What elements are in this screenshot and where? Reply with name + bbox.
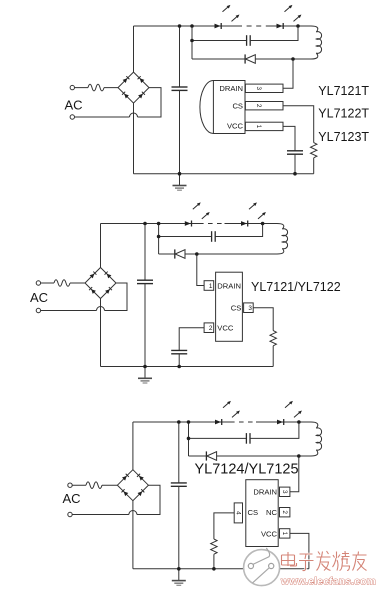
wire LED-block left drop bbox=[158, 224, 160, 255]
wire hop over rail bbox=[130, 113, 138, 117]
svg-text:4: 4 bbox=[235, 511, 242, 515]
watermark hanzi 发 bbox=[317, 551, 331, 571]
wire switch node to DRAIN bbox=[197, 254, 204, 286]
fuse F1 bbox=[88, 84, 104, 91]
pin 4 box (CS) bbox=[234, 503, 242, 523]
capacitor C3 (VCC) bbox=[171, 350, 187, 353]
wire AC live bbox=[75, 87, 119, 89]
wire top rail bbox=[134, 25, 303, 27]
AC terminal bottom bbox=[36, 308, 40, 312]
svg-text:2: 2 bbox=[281, 510, 288, 514]
fuse F1 bbox=[86, 482, 102, 489]
wire CS to resistor bbox=[214, 513, 234, 539]
capacitor C2 (across LEDs) bbox=[159, 236, 212, 238]
LED D2 bbox=[241, 202, 266, 226]
wire AC live bbox=[72, 484, 117, 486]
watermark hanzi 烧 bbox=[333, 551, 350, 571]
wire AC live bbox=[41, 282, 85, 284]
wire LED-block left drop bbox=[188, 422, 190, 456]
svg-text:1: 1 bbox=[255, 125, 262, 129]
wire bottom rail bbox=[134, 173, 314, 175]
svg-text:2: 2 bbox=[255, 104, 262, 108]
wire bridge AC return bbox=[41, 283, 127, 311]
LED D1 bbox=[215, 5, 240, 29]
ground bbox=[173, 174, 187, 191]
wire bridge AC return bbox=[75, 88, 162, 117]
LED D1 bbox=[185, 202, 210, 226]
bridge rectifier BR1 bbox=[85, 268, 116, 299]
svg-text:DRAIN: DRAIN bbox=[253, 488, 277, 497]
inductor L1 bbox=[302, 26, 322, 59]
op IC U1 TO-92 body bbox=[200, 81, 245, 134]
pin 3 box bbox=[245, 84, 283, 92]
svg-text:NC: NC bbox=[266, 508, 277, 517]
svg-text:VCC: VCC bbox=[261, 529, 278, 538]
LED D1 bbox=[215, 401, 240, 425]
svg-text:YL7122T: YL7122T bbox=[318, 107, 369, 121]
pin 1 box bbox=[204, 281, 214, 291]
node dots bbox=[178, 24, 182, 28]
wire VCC bbox=[283, 126, 295, 150]
svg-text:VCC: VCC bbox=[227, 121, 244, 130]
pin 2 box (NC) bbox=[280, 508, 290, 517]
svg-text:VCC: VCC bbox=[217, 324, 234, 333]
wire bridge AC return bbox=[72, 485, 160, 514]
svg-text:YL7123T: YL7123T bbox=[318, 130, 369, 144]
watermark hanzi 子 bbox=[299, 554, 314, 571]
IC U1 body bbox=[216, 272, 243, 341]
capacitor C3 (VCC) bbox=[287, 151, 303, 154]
logo lower stroke bbox=[253, 568, 270, 583]
wire hop over rail bbox=[97, 307, 105, 311]
wire dashed LED-string continuation bbox=[237, 25, 268, 27]
watermark hanzi 友 bbox=[353, 552, 367, 571]
pin 1 box (VCC) bbox=[280, 529, 290, 538]
wire top rail bbox=[101, 223, 269, 225]
svg-text:DRAIN: DRAIN bbox=[217, 281, 241, 290]
ground bbox=[138, 367, 152, 384]
wire left rail bbox=[133, 26, 135, 174]
logo small circle right bbox=[269, 563, 274, 568]
logo stem curve bbox=[253, 548, 269, 564]
capacitor C1 (bulk filter) bbox=[179, 26, 181, 87]
svg-text:AC: AC bbox=[65, 97, 83, 112]
bridge rectifier BR1 bbox=[118, 72, 149, 103]
wire bottom rail bbox=[101, 366, 274, 368]
svg-text:3: 3 bbox=[255, 87, 262, 91]
svg-text:3: 3 bbox=[281, 490, 288, 494]
wire CS to resistor bbox=[253, 308, 273, 331]
wire drain to switch node bbox=[283, 59, 293, 88]
pin 1 box bbox=[245, 122, 283, 130]
logo small circle left bbox=[248, 563, 253, 568]
pin 3 box bbox=[244, 303, 254, 313]
pin 2 box bbox=[245, 102, 283, 110]
capacitor C2 (across LEDs) bbox=[192, 40, 247, 42]
fuse F1 bbox=[54, 280, 70, 287]
svg-text:1: 1 bbox=[281, 532, 288, 536]
svg-text:CS: CS bbox=[232, 102, 243, 111]
capacitor C1 (bulk filter) bbox=[178, 422, 180, 483]
resistor R1 bbox=[270, 331, 276, 346]
svg-text:2: 2 bbox=[209, 325, 213, 332]
node dots bbox=[177, 420, 181, 424]
svg-text:CS: CS bbox=[248, 508, 259, 517]
svg-text:YL7121T: YL7121T bbox=[318, 84, 369, 98]
logo circle backdrop bbox=[244, 550, 280, 586]
ground bbox=[172, 569, 186, 586]
wire hop over rail bbox=[129, 511, 137, 515]
wire bottom rail bbox=[133, 568, 309, 570]
pin 2 box bbox=[204, 323, 214, 333]
LED D2 bbox=[277, 5, 302, 29]
AC terminal bottom bbox=[68, 512, 72, 516]
svg-text:3: 3 bbox=[248, 305, 252, 312]
wire VCC to cap bbox=[179, 328, 204, 351]
svg-text:www.elecfans.com: www.elecfans.com bbox=[280, 577, 376, 588]
inductor L1 bbox=[268, 224, 288, 254]
AC terminal bottom bbox=[70, 115, 74, 119]
capacitor C2 (across LEDs) bbox=[189, 437, 247, 439]
bridge rectifier BR1 bbox=[117, 470, 148, 501]
wire VCC bbox=[290, 533, 309, 568]
pin 3 box (DRAIN) bbox=[280, 487, 290, 496]
wire top rail bbox=[133, 421, 302, 423]
AC terminal top bbox=[36, 281, 40, 285]
svg-text:CS: CS bbox=[231, 304, 242, 313]
svg-text:AC: AC bbox=[30, 290, 48, 305]
svg-text:AC: AC bbox=[63, 491, 81, 506]
wire left rail bbox=[100, 224, 102, 367]
IC U1 body bbox=[246, 480, 278, 547]
capacitor C1 (bulk filter) bbox=[144, 224, 146, 281]
AC terminal top bbox=[70, 85, 74, 89]
watermark hanzi 电 bbox=[282, 552, 297, 566]
diode D3 (freewheel) bbox=[192, 58, 245, 60]
wire left rail bbox=[132, 422, 134, 569]
resistor R1 bbox=[311, 143, 317, 158]
svg-text:YL7124/YL7125: YL7124/YL7125 bbox=[195, 462, 299, 478]
diode D3 (freewheel) bbox=[189, 455, 207, 457]
wire drain to switch node bbox=[290, 456, 299, 492]
AC terminal top bbox=[68, 483, 72, 487]
wire CS to resistor bbox=[283, 106, 314, 143]
wire LED-block left drop bbox=[191, 26, 193, 59]
node dots bbox=[143, 222, 147, 226]
svg-text:DRAIN: DRAIN bbox=[219, 84, 243, 93]
svg-text:1: 1 bbox=[209, 283, 213, 290]
diode D3 (freewheel) bbox=[159, 253, 175, 255]
svg-text:YL7121/YL7122: YL7121/YL7122 bbox=[251, 280, 341, 294]
LED D2 bbox=[277, 401, 302, 425]
resistor R1 bbox=[211, 539, 217, 554]
wire dashed LED-string continuation bbox=[230, 421, 256, 423]
inductor L1 bbox=[302, 422, 322, 456]
wire dashed LED-string continuation bbox=[199, 223, 225, 225]
